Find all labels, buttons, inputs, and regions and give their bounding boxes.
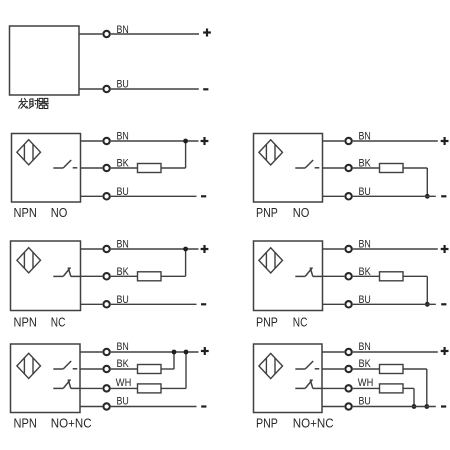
terminal circle BU PNP NC	[345, 301, 351, 307]
wire WH vertical to BN NPN NO+NC	[185, 352, 187, 388]
terminal circle BU PNP NO	[345, 193, 351, 199]
sensor symbol (photoelectric) NPN NO+NC	[17, 353, 41, 378]
wire WH stub NPN NO+NC	[80, 387, 102, 389]
wire BU NPN NC	[111, 303, 197, 305]
svg-text:NPN: NPN	[14, 415, 37, 430]
terminal circle BK PNP NO	[345, 165, 351, 171]
wire BK vertical to BN NPN NO+NC	[173, 352, 175, 369]
terminal circle BK PNP NC	[345, 273, 351, 279]
terminal circle BU (transmitter)	[103, 86, 109, 92]
plus sign NPN NO	[201, 137, 209, 145]
wire BU NPN NO+NC	[111, 406, 197, 408]
terminal circle WH NPN NO+NC	[103, 385, 109, 391]
terminal circle WH PNP NO+NC	[345, 385, 351, 391]
svg-text:NPN: NPN	[14, 205, 37, 220]
terminal circle BK PNP NO+NC	[345, 366, 351, 372]
minus sign PNP NO	[441, 195, 446, 197]
terminal circle BN PNP NC	[345, 246, 351, 252]
wire WH stub PNP NO+NC	[322, 387, 344, 389]
junction dot on BN NPN NO	[183, 139, 188, 144]
wire BN stub PNP NC	[323, 248, 345, 250]
wire BU stub NPN NC	[81, 303, 103, 305]
wire WH from resistor NPN NO+NC	[161, 387, 186, 389]
wire BK to resistor PNP NO	[353, 167, 380, 169]
wire BK stub NPN NC	[81, 275, 103, 277]
wire BN stub NPN NO	[81, 140, 103, 142]
switch contact NO NPN NO	[53, 160, 77, 168]
wire BK to resistor PNP NC	[353, 275, 380, 277]
junction dot BK on BU PNP NO+NC	[424, 404, 429, 409]
transmitter box 发射器	[10, 26, 80, 95]
terminal circle BU NPN NO+NC	[103, 403, 109, 409]
resistor (load) NPN NO	[138, 164, 162, 173]
sensor box NPN NC	[11, 241, 81, 311]
wire BK from resistor NPN NO	[161, 167, 186, 169]
svg-text:BN: BN	[117, 131, 129, 143]
wire BK vertical to BU PNP NO+NC	[426, 369, 428, 407]
terminal circle BK NPN NO+NC	[103, 366, 109, 372]
wire BU stub from transmitter	[79, 88, 102, 90]
switch contact NO PNP NO	[295, 160, 319, 168]
plus sign NPN NO+NC	[201, 347, 209, 355]
wire BN PNP NO	[353, 140, 438, 142]
svg-text:PNP: PNP	[256, 315, 278, 330]
svg-text:BU: BU	[359, 186, 371, 198]
svg-text:BK: BK	[359, 266, 372, 278]
wire BU PNP NO+NC	[353, 406, 436, 408]
svg-text:WH: WH	[116, 377, 132, 389]
switch contact NO NPN NO+NC	[53, 361, 77, 369]
wire BU stub PNP NO	[323, 195, 345, 197]
svg-text:BU: BU	[359, 294, 371, 306]
terminal circle BN NPN NO	[103, 138, 109, 144]
minus sign NPN NO+NC	[201, 405, 206, 407]
svg-text:BK: BK	[117, 266, 130, 278]
wire BU stub NPN NO	[81, 195, 103, 197]
junction dot on BU PNP NC	[425, 302, 430, 307]
wire BU PNP NO	[353, 195, 436, 197]
minus sign NPN NO	[201, 195, 206, 197]
terminal circle BK NPN NO	[103, 165, 109, 171]
minus sign (transmitter -)	[203, 88, 208, 90]
wire WH from resistor PNP NO+NC	[403, 387, 414, 389]
svg-text:BN: BN	[359, 341, 371, 353]
wire vertical to BU PNP NO	[426, 168, 428, 196]
wire vertical to BU PNP NC	[426, 276, 428, 304]
switch contact NC NPN NC	[53, 268, 80, 277]
svg-text:NO: NO	[293, 205, 310, 220]
svg-text:PNP: PNP	[256, 205, 278, 220]
svg-text:BN: BN	[117, 239, 129, 251]
svg-text:BU: BU	[117, 396, 129, 408]
wire BN to plus	[111, 33, 199, 35]
wire BN stub PNP NO+NC	[322, 351, 344, 353]
terminal circle BK NPN NC	[103, 273, 109, 279]
wire BN NPN NO+NC	[111, 351, 199, 353]
svg-text:WH: WH	[358, 377, 374, 389]
terminal circle BN PNP NO	[345, 138, 351, 144]
resistor (load) BK NPN NO+NC	[138, 365, 162, 374]
wire BN PNP NC	[353, 248, 438, 250]
resistor (load) NPN NC	[138, 272, 162, 281]
wire BK from resistor PNP NO+NC	[403, 368, 427, 370]
junction dot WH on BU PNP NO+NC	[412, 404, 417, 409]
svg-text:BN: BN	[359, 239, 371, 251]
junction dot WH on BN NPN NO+NC	[184, 350, 189, 355]
wire BK stub PNP NO	[323, 167, 345, 169]
plus sign NPN NC	[201, 245, 209, 253]
sensor symbol (photoelectric) PNP NC	[259, 248, 283, 273]
wire BN PNP NO+NC	[353, 351, 438, 353]
switch contact NC PNP NC	[295, 268, 322, 277]
svg-text:NC: NC	[51, 315, 66, 330]
svg-text:BU: BU	[117, 79, 129, 91]
wire BN stub NPN NC	[81, 248, 103, 250]
terminal circle BU NPN NO	[103, 193, 109, 199]
wire BU PNP NC	[353, 303, 436, 305]
terminal circle BN PNP NO+NC	[345, 349, 351, 355]
svg-text:NO+NC: NO+NC	[293, 415, 334, 430]
junction dot on BN NPN NC	[183, 247, 188, 252]
svg-text:BU: BU	[359, 396, 371, 408]
svg-text:BU: BU	[117, 186, 129, 198]
svg-text:PNP: PNP	[256, 415, 278, 430]
svg-text:BN: BN	[117, 24, 129, 36]
junction dot on BU PNP NO	[425, 194, 430, 199]
wire vertical to BN NPN NO	[185, 141, 187, 168]
terminal circle BU NPN NC	[103, 301, 109, 307]
wire BU to minus	[111, 88, 199, 90]
sensor symbol (photoelectric) NPN NO	[17, 140, 41, 165]
wire BK stub PNP NC	[323, 275, 345, 277]
resistor (load) BK PNP NO+NC	[380, 365, 404, 374]
terminal circle BN NPN NC	[103, 246, 109, 252]
minus sign NPN NC	[201, 303, 206, 305]
svg-text:BU: BU	[117, 294, 129, 306]
sensor box NPN NO+NC	[11, 344, 81, 413]
wire BN NPN NO	[111, 140, 199, 142]
wire WH vertical to BU PNP NO+NC	[413, 388, 415, 406]
sensor symbol (photoelectric) PNP NO+NC	[259, 353, 283, 378]
wire BK to resistor PNP NO+NC	[353, 368, 380, 370]
svg-text:BK: BK	[359, 358, 372, 370]
svg-text:NPN: NPN	[14, 315, 37, 330]
wire BK from resistor PNP NC	[403, 275, 427, 277]
wire BN stub NPN NO+NC	[80, 351, 102, 353]
wire BK to resistor NPN NC	[111, 275, 138, 277]
svg-text:BK: BK	[359, 158, 372, 170]
wire BN stub PNP NO	[323, 140, 345, 142]
junction dot BK on BN NPN NO+NC	[172, 350, 177, 355]
resistor (load) WH PNP NO+NC	[380, 384, 404, 393]
sensor symbol (photoelectric) PNP NO	[259, 140, 283, 165]
plus sign PNP NC	[441, 245, 449, 253]
svg-text:BK: BK	[117, 358, 130, 370]
minus sign PNP NC	[441, 303, 446, 305]
sensor box PNP NC	[254, 241, 323, 311]
switch contact NO PNP NO+NC	[295, 361, 319, 369]
wire BK stub NPN NO	[81, 167, 103, 169]
terminal circle BN NPN NO+NC	[103, 349, 109, 355]
label 发射器 (transmitter), drawn strokes	[19, 98, 49, 109]
terminal circle BN (transmitter)	[103, 31, 109, 37]
svg-text:NO: NO	[51, 205, 68, 220]
wire BK from resistor NPN NC	[161, 275, 186, 277]
minus sign PNP NO+NC	[441, 405, 446, 407]
wire vertical to BN NPN NC	[185, 249, 187, 276]
switch contact NC NPN NO+NC	[53, 380, 80, 389]
resistor (load) WH NPN NO+NC	[138, 384, 162, 393]
sensor box NPN NO	[12, 134, 81, 203]
wire WH to resistor NPN NO+NC	[111, 387, 138, 389]
wire WH to resistor PNP NO+NC	[353, 387, 380, 389]
wire BN NPN NC	[111, 248, 199, 250]
wire BU stub NPN NO+NC	[80, 406, 102, 408]
wire BU stub PNP NO+NC	[322, 406, 344, 408]
wire BK to resistor NPN NO+NC	[111, 368, 138, 370]
plus sign PNP NO+NC	[441, 347, 449, 355]
svg-text:NC: NC	[293, 315, 308, 330]
wire BK stub NPN NO+NC	[80, 368, 102, 370]
sensor box PNP NO	[254, 134, 323, 203]
switch contact NC PNP NO+NC	[295, 380, 322, 389]
svg-text:BK: BK	[117, 158, 130, 170]
wire BU NPN NO	[111, 195, 197, 197]
resistor (load) PNP NC	[380, 272, 404, 281]
wire BN stub from transmitter	[79, 33, 102, 35]
svg-text:BN: BN	[359, 131, 371, 143]
terminal circle BU PNP NO+NC	[345, 403, 351, 409]
sensor symbol (photoelectric) NPN NC	[17, 248, 41, 273]
resistor (load) PNP NO	[380, 164, 404, 173]
plus sign (transmitter +)	[203, 29, 211, 37]
svg-text:NO+NC: NO+NC	[51, 415, 92, 430]
wire BK to resistor NPN NO	[111, 167, 138, 169]
wire BK from resistor NPN NO+NC	[161, 368, 174, 370]
wire BK stub PNP NO+NC	[322, 368, 344, 370]
plus sign PNP NO	[441, 137, 449, 145]
svg-text:BN: BN	[117, 341, 129, 353]
sensor box PNP NO+NC	[254, 344, 323, 413]
wire BK from resistor PNP NO	[403, 167, 427, 169]
wire BU stub PNP NC	[323, 303, 345, 305]
